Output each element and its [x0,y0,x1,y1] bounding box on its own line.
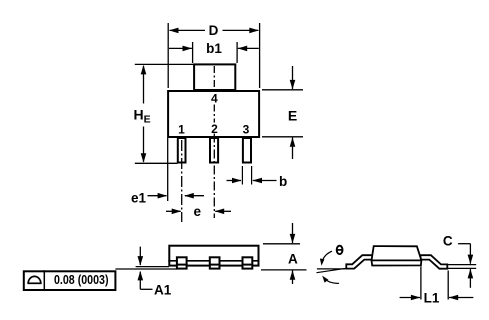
top view: lead 3 [243,138,251,163]
e1 dimension with outside arrows [148,193,205,199]
side view: lead 2 [210,257,220,268]
side view: package body [169,246,258,266]
svg-text:b: b [279,174,287,189]
theta label [337,246,343,254]
body left edge extension line (for e1) [167,138,169,201]
A dimension: lower arrow pointing up [290,270,296,284]
svg-text:e: e [194,204,202,219]
A1 dimension: upper arrow pointing down [138,247,144,266]
e dimension with outside arrows [166,209,231,215]
b1 dimension: extension lines above tab corners [192,42,194,63]
svg-text:D: D [209,23,219,38]
svg-text:E: E [144,114,151,126]
theta: upper arc arrow [320,251,332,266]
theta: seating plane reference line [317,268,345,270]
E dimension: top reference line (body top) [262,89,303,91]
svg-text:4: 4 [211,91,218,105]
package centerline (pin 4 / pin 2 axis) [213,66,215,218]
svg-text:C: C [443,234,453,249]
top view: tab (pin 4 heatsink) [194,64,235,90]
b dimension: extension lines below lead 3 [241,166,243,185]
A dimension: top reference line [263,243,300,245]
svg-text:A1: A1 [154,283,172,298]
A dimension: upper arrow pointing down [290,223,296,243]
surface profile symbol [27,276,41,283]
L1 dimension: extension lines [420,267,422,300]
svg-text:A: A [288,252,298,267]
side view: lead 3 [243,257,253,268]
D dimension line with outward arrows [169,28,259,34]
theta: foot angle line [317,268,348,273]
svg-text:b1: b1 [206,41,222,56]
bend view: left lead [346,255,373,268]
flatness tolerance frame [24,270,116,290]
HE dimension line with arrows both ends [141,65,147,163]
bend view: body parting line [372,259,422,261]
svg-text:L1: L1 [424,291,440,306]
C dimension: foot top/bottom reference lines [448,264,476,266]
seating plane line [115,268,177,270]
bend view: package body [372,246,422,265]
side view: lead strip line [168,260,259,262]
top view: package body [168,91,259,137]
b dimension lines with inward arrows [227,178,277,184]
svg-text:E: E [288,108,297,124]
E dimension: upper arrow pointing down [290,66,296,89]
svg-text:e1: e1 [131,190,147,205]
A dimension: bottom reference line (seating plane right) [261,269,307,271]
svg-text:H: H [134,107,144,123]
HE dimension: bottom reference line (lead bottoms) [135,162,178,164]
C dimension: upper arrow pointing down [468,244,474,264]
HE dimension: top reference line (tab top) [135,63,194,65]
C dimension: leader from label [458,243,470,245]
svg-text:3: 3 [243,122,250,136]
theta: lower arc arrow [322,276,339,284]
E dimension: lower arrow pointing up [290,137,296,159]
svg-text:1: 1 [178,122,185,136]
top view: lead 1 [178,138,186,163]
top view: lead 2 [210,138,218,163]
lead 1 centerline [181,140,183,222]
E dimension: bottom reference line (body bottom) [262,136,303,138]
L1 dimension lines with inward arrows [400,295,474,301]
side view: lead 1 [177,257,187,268]
bend view: right lead [421,255,448,269]
b1 dimension lines with inward arrows [169,46,259,52]
A1 dimension: lower arrow pointing up with elbow leader [138,271,153,289]
svg-text:0.08 (0003): 0.08 (0003) [54,273,109,287]
D dimension: extension lines [167,23,169,88]
C dimension: lower arrow pointing up [468,269,474,288]
body bottom extension line (for A1) [136,266,169,268]
